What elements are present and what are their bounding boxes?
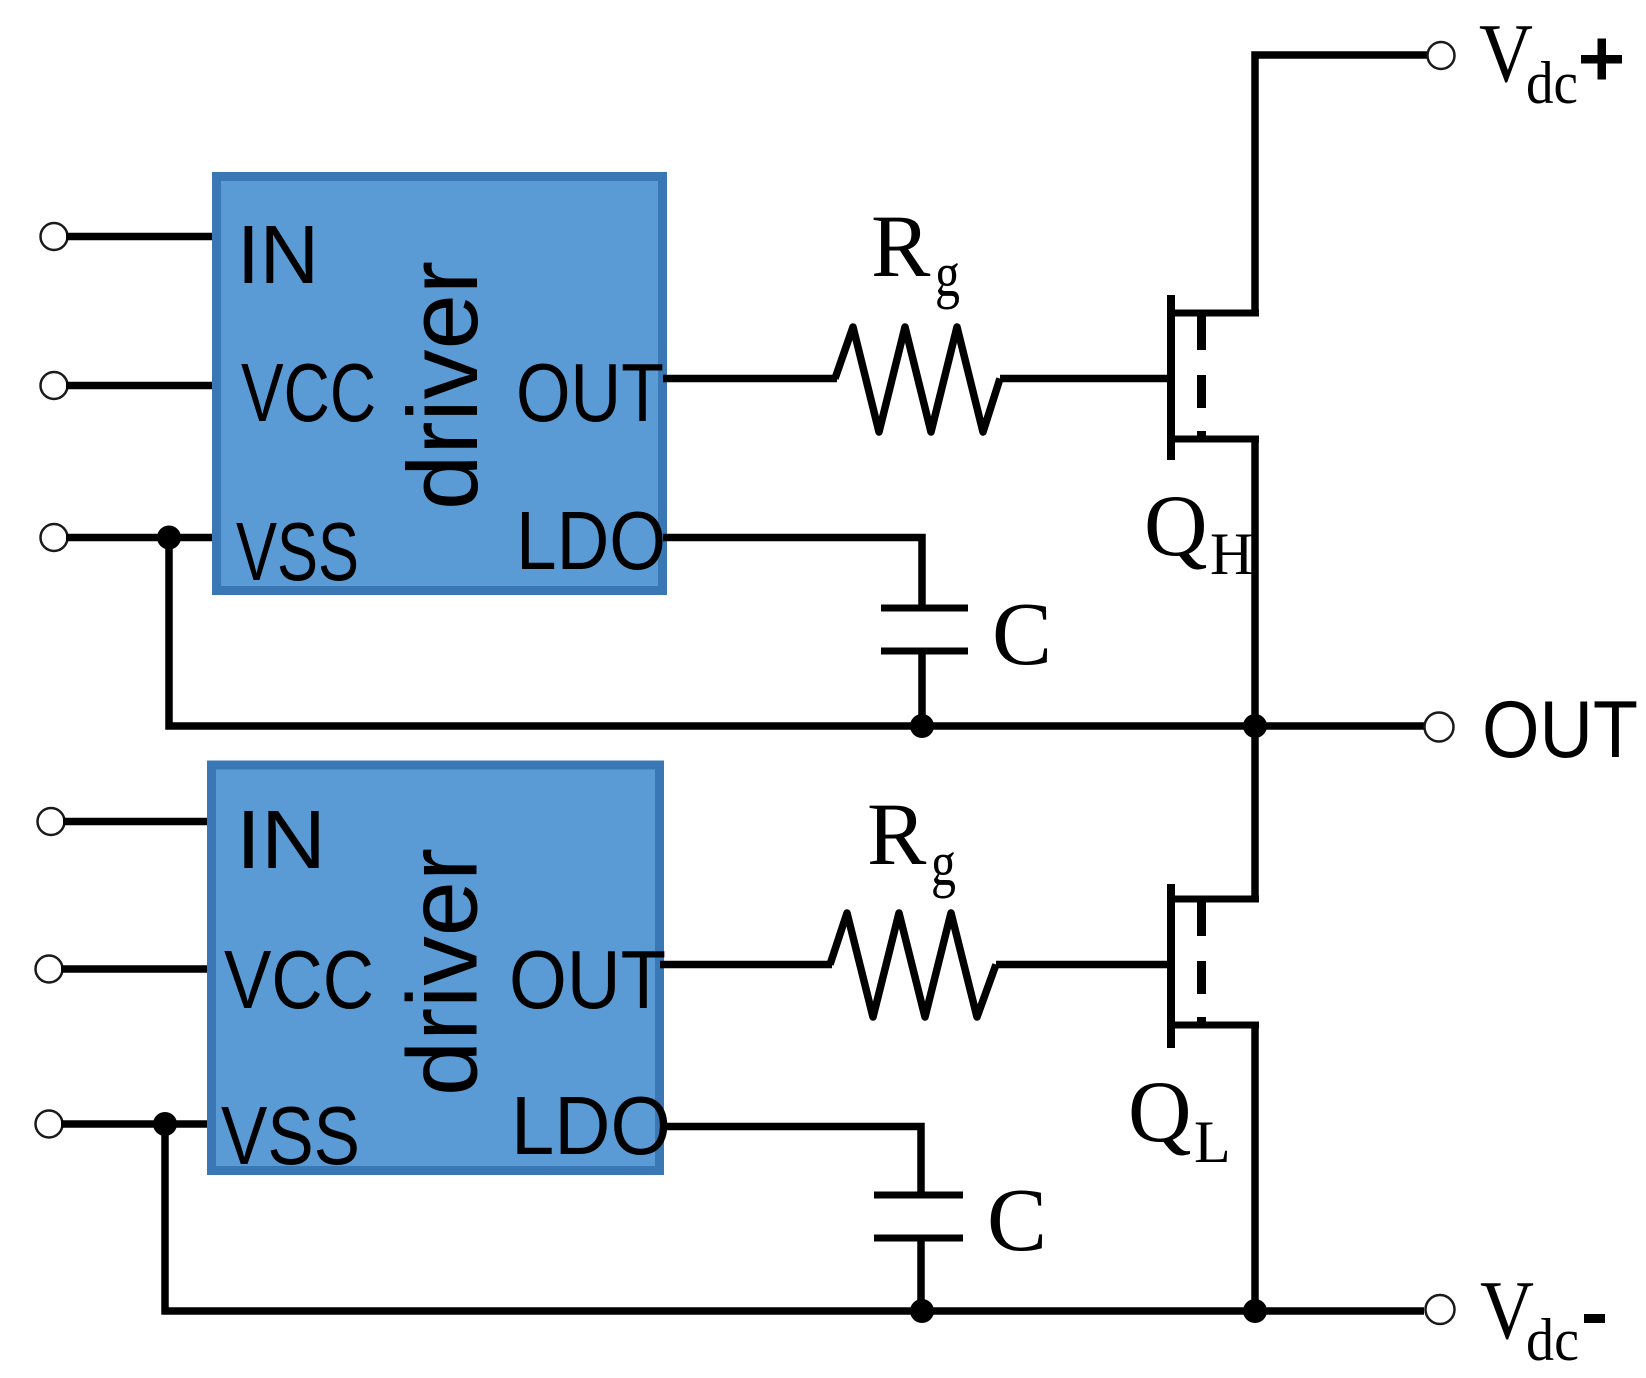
svg-text:OUT: OUT	[1482, 685, 1638, 775]
wire U2 OUT pin to resistor Rg2	[660, 961, 832, 969]
svg-text:driver: driver	[387, 261, 498, 510]
label Vdc+	[1479, 7, 1622, 116]
terminal IN2 (low-side input pin)	[38, 808, 65, 835]
junction C1 at OUT node	[910, 714, 934, 738]
svg-text:V: V	[1479, 7, 1533, 100]
label OUT (output terminal)	[1482, 685, 1638, 775]
svg-text:driver: driver	[387, 848, 498, 1096]
svg-text:R: R	[871, 198, 931, 296]
terminal Vdc+	[1428, 42, 1455, 69]
terminal IN1 (high-side input pin)	[41, 223, 68, 250]
wire VSS1 to driver U1	[66, 534, 214, 542]
svg-text:LDO: LDO	[511, 1079, 671, 1172]
pin label OUT (U2)	[509, 933, 666, 1026]
wire U1 OUT pin to resistor Rg1	[663, 375, 837, 383]
svg-text:VCC: VCC	[224, 933, 374, 1026]
svg-text:LDO: LDO	[516, 494, 666, 587]
junction C2 at Vdc- rail	[910, 1299, 934, 1323]
svg-text:L: L	[1194, 1109, 1231, 1175]
wire U1 LDO pin to capacitor C1	[663, 538, 922, 609]
terminal VSS1	[41, 524, 68, 551]
driver U2 box	[212, 765, 660, 1171]
pin label VCC (U1)	[241, 346, 376, 439]
wire IN1 to driver U1	[66, 233, 214, 241]
svg-text:Q: Q	[1144, 478, 1208, 575]
wire IN2 to driver U2	[63, 818, 210, 826]
junction VSS1 node	[157, 526, 181, 550]
svg-text:VSS: VSS	[221, 1089, 360, 1182]
label C1	[992, 585, 1052, 684]
junction QL source at Vdc- rail	[1243, 1299, 1267, 1323]
svg-text:H: H	[1210, 521, 1253, 587]
svg-text:Q: Q	[1128, 1064, 1192, 1161]
pin label OUT (U1)	[516, 346, 664, 439]
terminal VCC1	[41, 372, 68, 399]
label Vdc-	[1480, 1264, 1605, 1373]
wire QL drain up to OUT node	[1251, 726, 1259, 899]
wire VSS2 down to Vdc- rail	[161, 1124, 169, 1315]
wire VCC1 to driver U1	[66, 382, 214, 390]
label driver (U2, rotated)	[387, 848, 498, 1096]
transistor QL	[1167, 884, 1259, 1048]
terminal OUT	[1425, 713, 1454, 742]
terminal Vdc-	[1426, 1295, 1455, 1324]
svg-text:OUT: OUT	[509, 933, 666, 1026]
wire QL source down to Vdc- rail	[1251, 1025, 1259, 1311]
driver U1 box	[217, 177, 663, 591]
pin label LDO (U2)	[511, 1079, 671, 1172]
svg-text:VCC: VCC	[241, 346, 376, 439]
wire U2 LDO pin to capacitor C2	[660, 1127, 921, 1196]
svg-text:IN: IN	[237, 208, 319, 301]
capacitor C2 (low side)	[874, 1192, 963, 1312]
pin label IN (U2)	[236, 793, 326, 886]
label C2	[987, 1171, 1047, 1270]
wire VSS2 to driver U2	[61, 1120, 210, 1128]
junction QH source at OUT node	[1243, 714, 1267, 738]
junction VSS2 node	[153, 1112, 177, 1136]
resistor Rg1 (high side gate resistor)	[835, 327, 1000, 432]
terminal VSS2	[36, 1111, 63, 1138]
label QL	[1128, 1064, 1231, 1175]
pin label VCC (U2)	[224, 933, 374, 1026]
svg-text:OUT: OUT	[516, 346, 664, 439]
svg-text:C: C	[992, 585, 1052, 684]
terminal VCC2	[36, 956, 63, 983]
pin label LDO (U1)	[516, 494, 666, 587]
wire QH drain to Vdc+ terminal	[1255, 55, 1427, 313]
wire VCC2 to driver U2	[61, 965, 210, 973]
pin label VSS (U2)	[221, 1089, 360, 1182]
svg-text:R: R	[867, 786, 927, 884]
svg-text:C: C	[987, 1171, 1047, 1270]
svg-text:dc: dc	[1526, 1307, 1579, 1373]
wire QH source down to OUT node	[1251, 439, 1259, 726]
resistor Rg2 (low side gate resistor)	[830, 913, 996, 1017]
label driver (U1, rotated)	[387, 261, 498, 510]
svg-text:VSS: VSS	[236, 505, 359, 598]
wire Rg1 to QH gate	[1000, 375, 1167, 383]
label Rg1	[871, 198, 960, 310]
capacitor C1 (bootstrap cap, high side)	[881, 605, 968, 727]
pin label IN (U1)	[237, 208, 319, 301]
wire Rg2 to QL gate	[996, 961, 1167, 969]
svg-text:g: g	[935, 240, 960, 310]
svg-text:IN: IN	[236, 793, 326, 886]
transistor QH	[1167, 295, 1259, 460]
wire VSS1 down to OUT node	[165, 538, 173, 730]
node OUT horizontal wire	[166, 722, 1425, 730]
label Rg2	[867, 786, 956, 899]
svg-text:dc: dc	[1526, 50, 1578, 116]
label QH	[1144, 478, 1253, 587]
svg-text:g: g	[931, 829, 956, 899]
node Vdc- horizontal rail	[162, 1307, 1425, 1315]
pin label VSS (U1)	[236, 505, 359, 598]
